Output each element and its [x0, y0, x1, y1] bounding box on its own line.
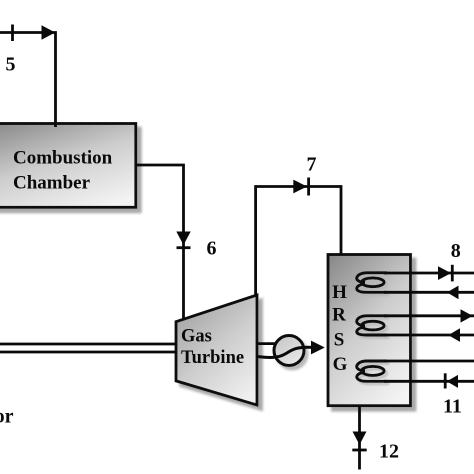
svg-text:Combustion: Combustion — [13, 148, 113, 169]
arrow left line 4 — [448, 328, 460, 342]
valve arrow 6 — [176, 232, 190, 246]
valve arrow 12 — [353, 432, 367, 445]
svg-text:7: 7 — [307, 154, 317, 176]
svg-text:Turbine: Turbine — [181, 348, 244, 368]
svg-text:H: H — [332, 282, 347, 303]
combustion chamber — [0, 124, 136, 208]
wire stream 7 turbine to HRSG — [256, 187, 341, 297]
HRSG — [328, 255, 411, 406]
svg-text:Chamber: Chamber — [13, 173, 91, 194]
generator output curve — [257, 347, 312, 357]
tick state point 5 — [11, 25, 14, 42]
tick state point 6 — [177, 246, 191, 249]
wire line 2 (return in) — [384, 291, 474, 294]
arrow left line 2 — [447, 286, 459, 300]
valve arrow 8 — [438, 266, 451, 280]
wire combustion chamber to turbine — [136, 165, 184, 320]
gas turbine — [176, 295, 257, 405]
wire line 6 (stream 11 in) — [384, 380, 474, 383]
compressor shaft (double line) — [0, 343, 176, 346]
HRSG coil 1 — [357, 273, 387, 293]
tick state point 7 — [307, 178, 310, 196]
svg-text:12: 12 — [379, 441, 399, 463]
svg-text:11: 11 — [443, 396, 462, 418]
generator circle — [274, 336, 304, 366]
svg-text:R: R — [332, 305, 346, 326]
wire line 4 (return in) — [384, 334, 474, 337]
svg-text:G: G — [333, 354, 348, 375]
wire stream 12 out of HRSG bottom — [358, 406, 361, 470]
valve arrow 11 — [447, 375, 458, 388]
HRSG coil 2 — [357, 316, 387, 335]
svg-text:Compressor: Compressor — [0, 406, 14, 428]
svg-text:Gas: Gas — [181, 327, 212, 347]
svg-text:8: 8 — [451, 240, 461, 262]
wire line 1 (stream 8 out) — [384, 272, 474, 275]
generator output arrow — [311, 341, 325, 355]
wire stream 5 into combustion chamber — [0, 33, 56, 128]
tick state point 11 — [444, 373, 447, 388]
svg-text:S: S — [334, 330, 345, 351]
tick state point 8 — [451, 265, 454, 282]
arrow into corner — [42, 25, 56, 40]
HRSG coil 3 — [357, 361, 387, 381]
wire line 3 (steam out) — [384, 314, 474, 317]
wire line 5 (out) — [384, 360, 474, 363]
svg-text:6: 6 — [207, 238, 217, 260]
arrow right line 3 — [461, 309, 473, 322]
valve arrow 7 — [293, 180, 307, 194]
tick state point 12 — [352, 449, 366, 452]
turbine shaft to generator — [257, 342, 275, 345]
svg-text:5: 5 — [6, 54, 16, 76]
